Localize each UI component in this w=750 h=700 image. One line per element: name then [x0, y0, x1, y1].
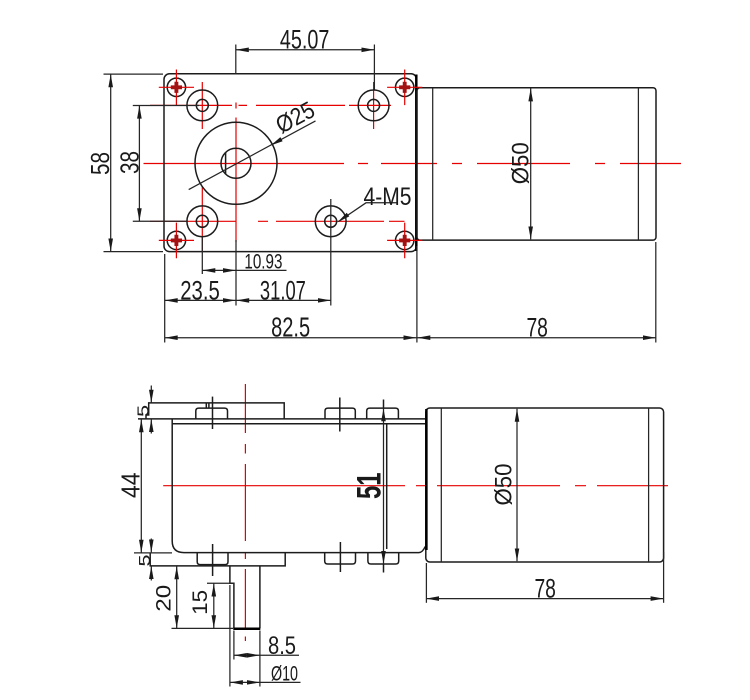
ext line hole bottom-right down: [330, 199, 332, 306]
svg-text:44: 44: [116, 473, 146, 499]
ext line motor right down (side): [663, 552, 665, 603]
svg-text:78: 78: [526, 312, 548, 342]
svg-text:5: 5: [137, 554, 154, 566]
svg-text:10.93: 10.93: [244, 250, 282, 273]
ext line shaft left down: [229, 585, 231, 687]
motor left edge thick (side view): [425, 409, 428, 550]
svg-text:8.5: 8.5: [268, 632, 296, 660]
mounting hole top-left M5: [187, 90, 218, 121]
svg-text:4-M5: 4-M5: [364, 183, 412, 211]
leader Ø25 arrowhead: [271, 137, 283, 145]
shaft end face thick: [233, 627, 260, 630]
svg-text:Ø50: Ø50: [491, 464, 518, 506]
gearbox body outline (side view): [172, 419, 425, 553]
screw axis tick bottom-3 (below 51 dim): [383, 564, 385, 572]
motor cap line left (side view): [440, 408, 442, 562]
screw head bump top-2: [325, 408, 355, 419]
output shaft hole circle: [221, 148, 251, 178]
svg-text:82.5: 82.5: [271, 311, 310, 342]
leader 4-M5 arrowhead: [338, 213, 350, 223]
ext line shaft right down: [259, 631, 261, 687]
dim 5 bottom stub lower: [150, 566, 152, 580]
svg-text:Ø10: Ø10: [271, 662, 298, 686]
bottom plate (side view): [150, 553, 285, 566]
mounting hole bottom-right M5: [315, 206, 346, 237]
shaft D-flat chord: [225, 153, 227, 174]
dim 78 side line: [426, 598, 664, 600]
ext line hole bottom-left down: [201, 238, 203, 275]
dim 38 extension lines: [133, 105, 199, 107]
dim 44 line: [140, 419, 142, 553]
centerline main horizontal (side view): [163, 485, 668, 487]
dim 10.93 line: [202, 269, 236, 271]
centerline main horizontal (top view): [144, 163, 682, 165]
svg-text:45.07: 45.07: [280, 25, 330, 55]
centerline vertical hole top-left: [201, 82, 203, 129]
svg-text:23.5: 23.5: [180, 275, 220, 305]
ext line shaft end left: [172, 627, 234, 629]
svg-text:Ø50: Ø50: [508, 142, 535, 184]
dim Ø50 side line: [516, 409, 518, 562]
dim Ø50 top view line: [530, 88, 532, 239]
dim 58 line: [110, 74, 112, 251]
ext line shaft flat down: [233, 631, 235, 660]
dim 58 extension lines: [104, 73, 164, 75]
screw axis tick top-3 (above 51 dim): [383, 400, 385, 409]
dim 51 line: [383, 408, 385, 564]
gearbox right edge thick: [415, 75, 418, 252]
dim 5 top stub upper: [150, 386, 152, 403]
dim 8.5 line: [234, 654, 260, 656]
dim 5 bottom stub upper: [150, 539, 152, 553]
corner screw top-right: [387, 70, 422, 106]
svg-text:58: 58: [85, 152, 115, 175]
dim 8.5 tail: [260, 654, 299, 656]
svg-text:31.07: 31.07: [260, 275, 306, 305]
corner screw top-left: [159, 70, 194, 106]
svg-text:20: 20: [152, 585, 176, 612]
mounting hole bottom-left M5: [187, 206, 218, 237]
dim 5 top stub lower: [150, 419, 152, 433]
dim 23.5 line: [165, 299, 236, 301]
screw tip notch on cover plate: [206, 403, 209, 408]
centerline vertical hole top-right: [373, 82, 375, 129]
dim 10.93 tail: [236, 269, 287, 271]
screw head bump bottom-1 (inside plate): [197, 553, 228, 565]
dim 78 top view line: [417, 337, 656, 339]
dim 15 line: [213, 584, 215, 629]
top cover plate (side view): [146, 403, 284, 420]
gear boss circle Ø25: [195, 122, 277, 204]
gearbox housing outline (top view): [164, 74, 417, 252]
svg-text:15: 15: [188, 590, 212, 615]
centerline hole row top: [150, 104, 391, 106]
corner screw bottom-right: [387, 223, 422, 259]
screw axis tick top-1: [212, 397, 214, 429]
dim Ø10 tail: [260, 681, 301, 683]
dim 44 ext bottom: [134, 552, 172, 554]
corner screw bottom-left: [159, 223, 194, 259]
output shaft (side view): [230, 566, 260, 629]
ext line shaft center down: [235, 240, 237, 306]
dim 38 line: [138, 106, 140, 222]
dim 31.07 line: [236, 299, 331, 301]
body right edge (side view): [386, 424, 388, 549]
motor body (side view): [426, 408, 664, 562]
motor cap line left (top view): [432, 88, 434, 240]
screw axis tick top-2: [339, 398, 341, 432]
ext line flat start: [207, 582, 234, 584]
screw head bump bottom-2: [325, 553, 356, 564]
leader line Ø25: [189, 121, 316, 190]
svg-text:38: 38: [114, 151, 144, 174]
motor cap line right (side view): [648, 408, 650, 562]
dim 82.5 line: [165, 337, 417, 339]
dim 20 line: [176, 566, 178, 628]
ext line gearbox right down: [416, 246, 418, 343]
svg-text:51: 51: [351, 473, 389, 500]
top surface line: [138, 418, 426, 420]
dim Ø10 line: [230, 681, 260, 683]
svg-text:5: 5: [135, 405, 152, 417]
centerline vertical shaft axis: [235, 103, 237, 243]
motor cap line right (top view): [637, 88, 639, 240]
centerline hole row bottom: [150, 220, 405, 222]
screw head bump top-1: [196, 408, 228, 419]
ext line gearbox left down: [164, 254, 166, 343]
dim 45.07 line: [236, 49, 375, 51]
motor body (top view): [417, 88, 656, 240]
screw axis tick bottom-1: [212, 544, 214, 576]
screw axis tick bottom-2: [339, 542, 341, 572]
screw head bump top-3: [367, 408, 399, 419]
dim 45.07 extension lines: [235, 45, 237, 75]
centerline shaft vertical (side view): [244, 384, 246, 641]
leader line 4-M5: [339, 203, 398, 222]
ext line motor right down: [655, 242, 657, 343]
body top edge line: [173, 423, 426, 425]
screw head bump bottom-3: [368, 553, 399, 564]
centerline vertical hole bottom-left: [201, 186, 203, 252]
ext line motor left down (side): [425, 563, 427, 603]
svg-text:78: 78: [534, 573, 556, 603]
mounting hole top-right M5: [358, 90, 389, 121]
